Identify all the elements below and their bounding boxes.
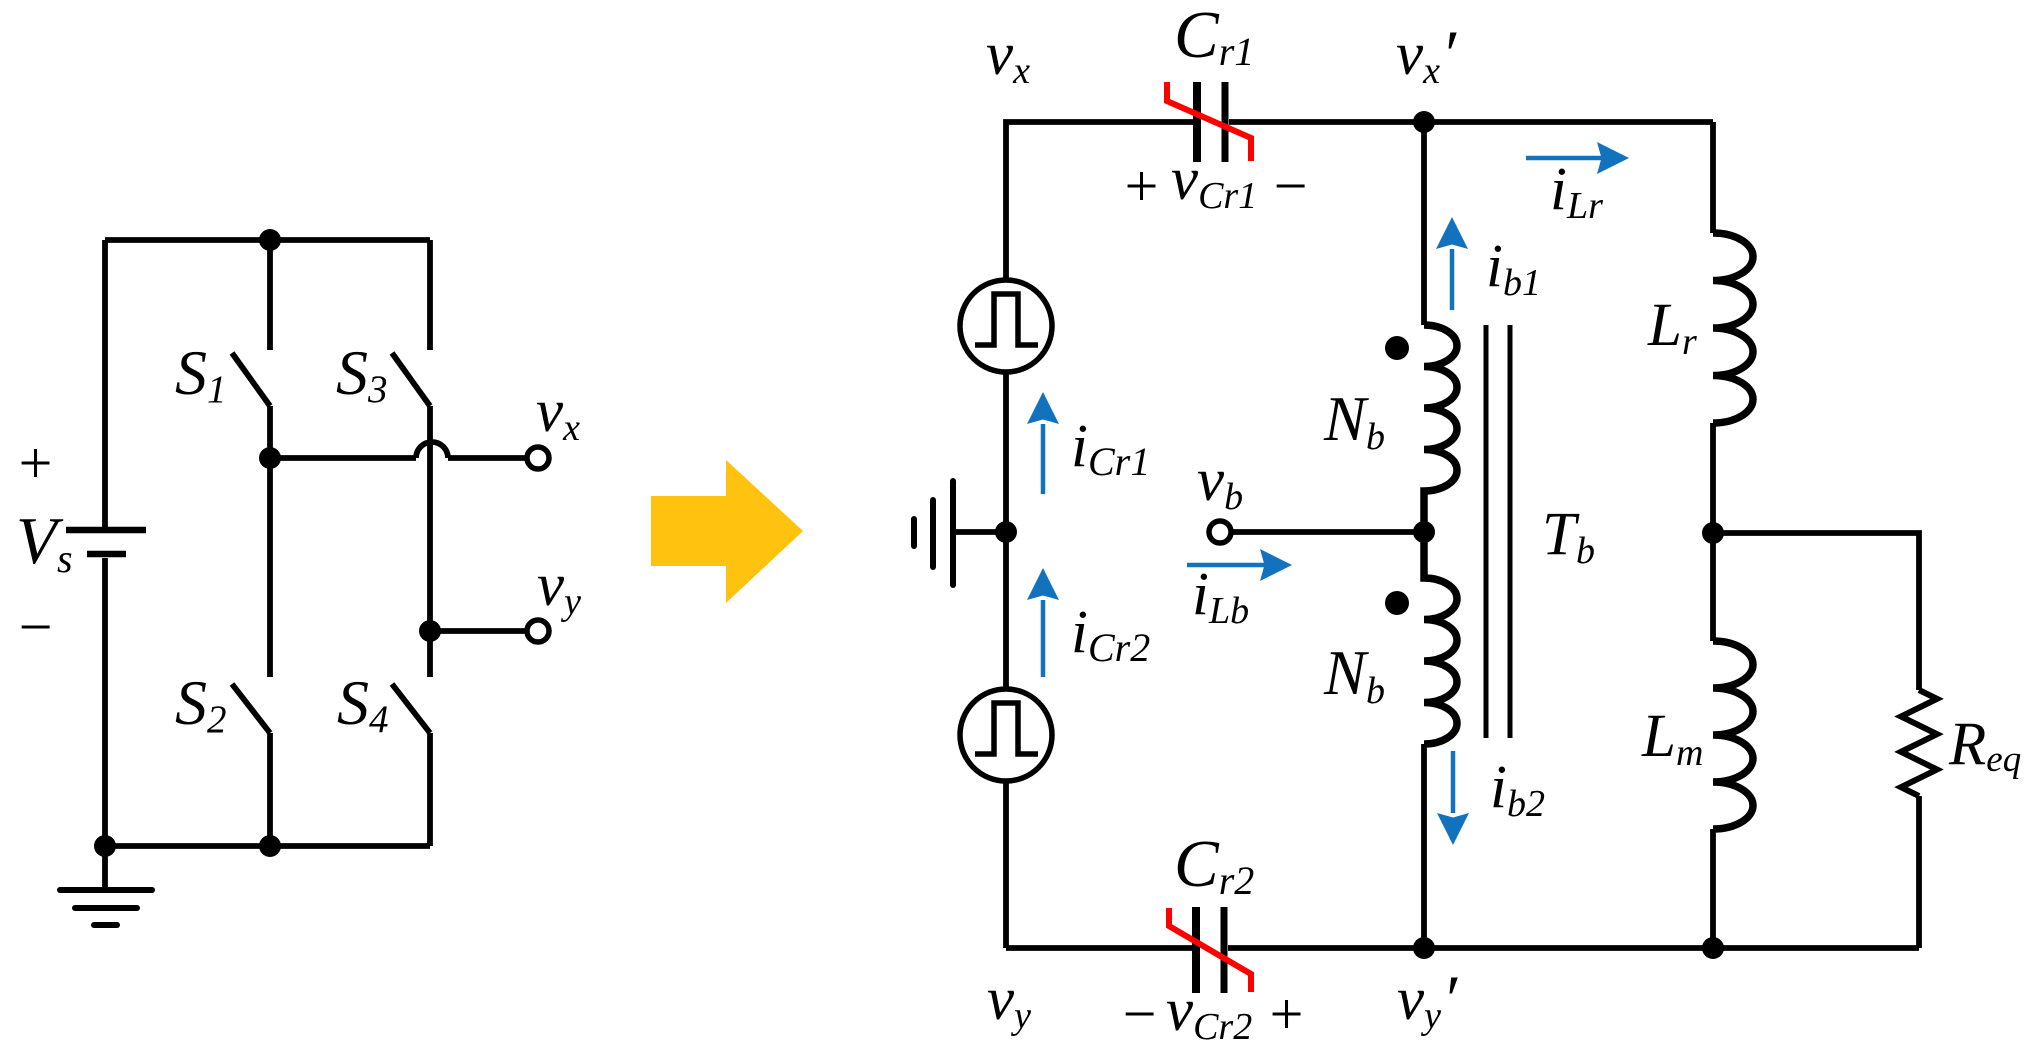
wire gnd node to source2 — [1003, 532, 1009, 689]
svg-text:Tb: Tb — [1542, 501, 1595, 572]
wire source2 to bottom rail — [1003, 781, 1009, 948]
wire Lm bottom to rail — [1710, 829, 1716, 948]
pulse source bottom circle — [960, 689, 1052, 781]
capacitor Cr2 plates — [1196, 907, 1224, 993]
wire left top rail — [105, 237, 430, 243]
svg-text:+: + — [1266, 981, 1307, 1047]
wire S4 lower — [427, 733, 433, 846]
arrow iLr blue — [1526, 142, 1629, 174]
svg-text:−: − — [1119, 981, 1160, 1047]
svg-text:Cr2: Cr2 — [1174, 827, 1254, 903]
wire S2 lower — [267, 733, 273, 846]
svg-text:vx: vx — [536, 378, 580, 449]
svg-text:vx: vx — [986, 21, 1030, 92]
svg-text:Vs: Vs — [16, 504, 73, 581]
wire Req bottom lead — [1916, 796, 1922, 948]
arrow ib2 blue — [1437, 751, 1469, 845]
ground right stub — [956, 529, 1006, 535]
wire right top rail right — [1229, 119, 1713, 125]
pulse source top circle — [960, 280, 1052, 372]
wire S1 to node — [267, 406, 273, 458]
svg-text:−: − — [15, 594, 56, 660]
yellow big arrow — [651, 460, 803, 603]
ground right bars — [914, 481, 953, 585]
wire left bottom rail — [105, 843, 430, 849]
node top rail junction — [259, 229, 281, 251]
ground left stub — [102, 846, 108, 890]
terminal vy open circle — [527, 620, 549, 642]
capacitor Cr1 red strike — [1167, 82, 1251, 161]
wire transformer stem bottom — [1421, 744, 1427, 948]
wire right branch upper — [1710, 122, 1716, 233]
svg-text:iCr2: iCr2 — [1071, 599, 1150, 670]
svg-text:S4: S4 — [337, 667, 389, 741]
svg-text:+: + — [1121, 153, 1162, 219]
node vy prime — [1413, 937, 1435, 959]
wire vy node to terminal — [430, 628, 527, 634]
switch S2 blade — [232, 684, 270, 733]
inductor Lm coil — [1713, 641, 1753, 829]
svg-text:iLr: iLr — [1550, 156, 1603, 227]
wire node to Lm — [1710, 533, 1716, 641]
svg-text:vy′: vy′ — [1397, 961, 1458, 1037]
wire hop to vx — [448, 455, 527, 461]
switch S3 blade — [392, 353, 430, 406]
svg-text:iCr1: iCr1 — [1071, 413, 1150, 484]
transformer core lines — [1486, 325, 1510, 738]
resistor Req zigzag — [1901, 690, 1937, 796]
svg-text:Nb: Nb — [1323, 384, 1385, 458]
svg-text:Lm: Lm — [1641, 703, 1703, 774]
svg-text:ib1: ib1 — [1486, 233, 1541, 304]
svg-text:−: − — [1270, 153, 1311, 219]
node S1-S2 midpoint — [259, 447, 281, 469]
wire S3 vertical — [427, 406, 433, 631]
wire node to Req branch — [1713, 533, 1919, 690]
pulse source top glyph — [975, 294, 1038, 345]
pulse source bottom glyph — [975, 703, 1038, 754]
svg-text:ib2: ib2 — [1490, 754, 1545, 825]
svg-text:iLb: iLb — [1192, 561, 1249, 632]
node bottom rail right — [1702, 937, 1724, 959]
inductor Nb top coil — [1424, 325, 1457, 532]
ground left bars — [60, 890, 152, 925]
capacitor Cr2 red strike — [1169, 908, 1251, 992]
switch S1 blade — [232, 353, 270, 406]
svg-text:Req: Req — [1948, 711, 2021, 780]
transformer polarity dot bottom — [1385, 591, 1409, 615]
wire S2 upper — [267, 458, 273, 677]
svg-text:S2: S2 — [175, 667, 227, 741]
svg-text:Nb: Nb — [1323, 638, 1385, 712]
svg-text:vx′: vx′ — [1396, 16, 1457, 92]
capacitor Cr1 plates — [1197, 82, 1225, 162]
node Lr Lm junction — [1702, 522, 1724, 544]
battery Vs plates — [66, 530, 146, 554]
wire S4 upper — [427, 631, 433, 677]
node gnd junction — [995, 521, 1017, 543]
wire left rail upper — [102, 240, 108, 527]
wire mid to hop — [270, 455, 416, 461]
svg-text:S1: S1 — [175, 337, 227, 411]
wire right bottom rail right — [1228, 945, 1919, 951]
arrow iCr1 blue — [1027, 392, 1059, 494]
svg-text:+: + — [15, 430, 56, 496]
arrow iCr2 blue — [1027, 568, 1059, 677]
svg-text:vCr2: vCr2 — [1166, 977, 1252, 1048]
svg-text:vb: vb — [1197, 447, 1243, 518]
wire left rail lower — [102, 558, 108, 846]
arrow iLb blue — [1187, 549, 1292, 581]
wire transformer stem top — [1421, 122, 1427, 325]
switch S4 blade — [392, 684, 430, 733]
wire vb to transformer — [1231, 529, 1424, 535]
wire Lr bottom to node — [1710, 423, 1716, 533]
svg-text:Cr1: Cr1 — [1174, 0, 1254, 74]
node vy junction — [419, 620, 441, 642]
wire right top rail left — [1006, 122, 1194, 280]
terminal vb open circle — [1209, 521, 1231, 543]
node transformer center tap — [1413, 521, 1435, 543]
svg-text:vy: vy — [537, 552, 581, 623]
node vx prime — [1413, 111, 1435, 133]
switch S1 top stub — [267, 240, 273, 350]
inductor Lr coil — [1713, 233, 1753, 423]
node bottom rail left — [94, 835, 116, 857]
transformer polarity dot top — [1385, 336, 1409, 360]
terminal vx open circle — [527, 447, 549, 469]
node bottom rail mid — [259, 835, 281, 857]
svg-text:vy: vy — [987, 966, 1031, 1037]
wire hop arc — [416, 442, 448, 458]
arrow ib1 blue — [1436, 217, 1468, 310]
svg-text:Lr: Lr — [1647, 292, 1697, 363]
svg-text:vCr1: vCr1 — [1171, 146, 1257, 217]
wire right bottom rail left — [1006, 945, 1192, 951]
svg-text:S3: S3 — [336, 337, 388, 411]
switch S3 top stub — [427, 240, 433, 350]
wire source1 to gnd node — [1003, 372, 1009, 532]
inductor Nb bottom coil — [1424, 532, 1457, 744]
